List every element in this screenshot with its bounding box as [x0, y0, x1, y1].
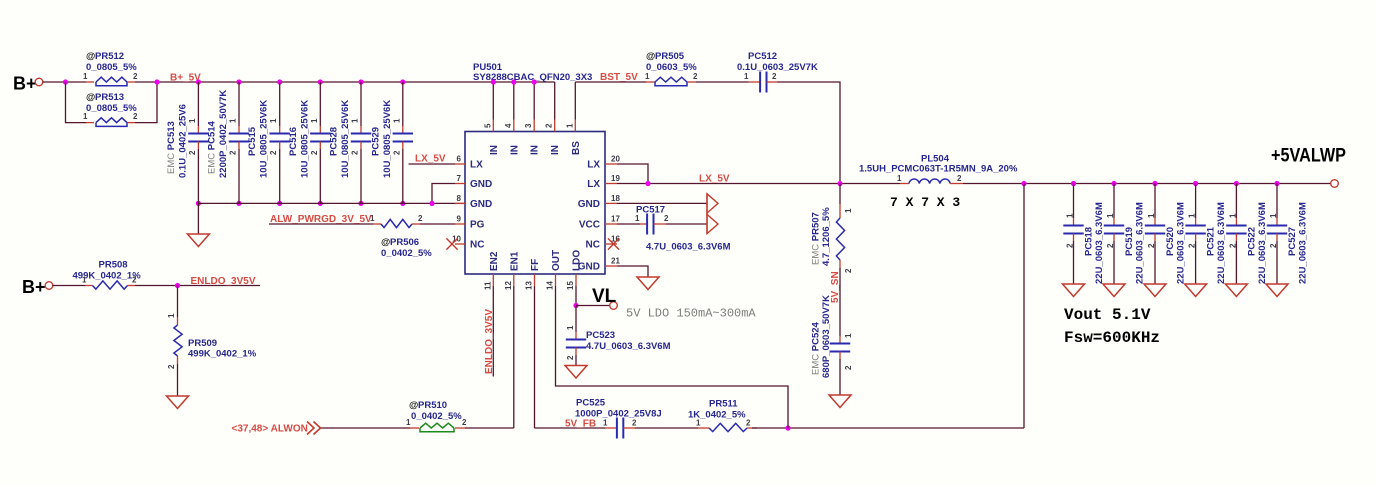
- svg-text:10U_0805_25V6K: 10U_0805_25V6K: [382, 100, 393, 178]
- off-page chevron ALWON: [307, 422, 321, 435]
- svg-text:IN: IN: [530, 145, 541, 155]
- svg-text:PR512: PR512: [95, 51, 124, 62]
- svg-text:PC527: PC527: [1287, 227, 1298, 256]
- svg-text:1: 1: [635, 214, 640, 223]
- svg-text:4.7U_0603_6.3V6M: 4.7U_0603_6.3V6M: [586, 341, 671, 352]
- svg-text:@: @: [646, 51, 655, 62]
- pin 18 GND right: [605, 202, 617, 204]
- svg-text:PC518: PC518: [1084, 227, 1095, 256]
- svg-text:PC519: PC519: [1124, 227, 1135, 256]
- svg-text:2: 2: [1188, 243, 1197, 248]
- capacitor PC527 22U_0603_6.3V6M: [1274, 181, 1279, 186]
- svg-text:B+: B+: [22, 277, 46, 297]
- svg-text:1: 1: [1269, 213, 1278, 218]
- svg-text:PR509: PR509: [188, 338, 217, 349]
- svg-text:@: @: [86, 51, 95, 62]
- node junction LX rail / PR507+PC512 branch: [837, 181, 842, 186]
- svg-text:EMC PC513: EMC PC513: [166, 121, 177, 174]
- svg-text:2: 2: [1147, 243, 1156, 248]
- wire pin 14 OUT to feedback junction: [556, 286, 789, 428]
- svg-text:2: 2: [664, 214, 669, 223]
- wire GND bottom rail of input cap bank: [198, 202, 455, 204]
- svg-text:EN1: EN1: [509, 251, 520, 271]
- pin 11 EN2 bottom stub: [492, 274, 494, 286]
- wire B+ terminal to PR512: [43, 81, 87, 83]
- wire 5V_SN net: [839, 268, 841, 336]
- svg-text:1: 1: [1188, 213, 1197, 218]
- svg-text:GND: GND: [470, 199, 492, 210]
- svg-text:@: @: [86, 92, 95, 103]
- svg-text:PC516: PC516: [288, 127, 299, 156]
- svg-text:1000P_0402_25V8J: 1000P_0402_25V8J: [575, 409, 662, 420]
- capacitor PC520 22U_0603_6.3V6M: [1152, 181, 1157, 186]
- wire PR511 to feedback junction: [752, 427, 1024, 429]
- wire VL to terminal: [576, 305, 610, 307]
- pin 6 LX left: [455, 163, 465, 165]
- svg-text:PC521: PC521: [1206, 226, 1217, 256]
- wire ALWON to PR510: [321, 427, 410, 429]
- svg-text:7: 7: [457, 174, 462, 183]
- capacitor PC516 10U_0805_25V6K: [318, 79, 323, 84]
- off-page arrow PC517 GND: [707, 214, 718, 233]
- ground under PC519: [1103, 284, 1125, 297]
- svg-text:PC522: PC522: [1246, 227, 1257, 256]
- op-amp U-PU501 SY8288CBAC QFN20_3X3 body: [465, 132, 605, 275]
- svg-text:1: 1: [83, 72, 88, 81]
- svg-text:19: 19: [611, 174, 620, 183]
- svg-text:IN: IN: [550, 145, 561, 155]
- svg-text:680P_0603_50V7K: 680P_0603_50V7K: [821, 295, 832, 378]
- svg-text:13: 13: [525, 281, 534, 290]
- pin 7 GND left: [455, 183, 465, 185]
- capacitor PC524 680P_0603_50V7K: [839, 336, 841, 344]
- svg-text:22U_0603_6.3V6M: 22U_0603_6.3V6M: [1094, 202, 1105, 284]
- capacitor PC513 0.1U_0402_25V6: [196, 79, 201, 84]
- svg-text:2: 2: [1106, 243, 1115, 248]
- ground pin 21: [637, 277, 659, 290]
- svg-text:@: @: [409, 400, 418, 411]
- svg-text:7 X 7 X 3: 7 X 7 X 3: [890, 195, 960, 210]
- svg-text:NC: NC: [586, 240, 600, 251]
- svg-text:2: 2: [632, 419, 637, 428]
- svg-text:2: 2: [844, 268, 853, 273]
- svg-text:PR506: PR506: [390, 237, 419, 248]
- capacitor PC529 10U_0805_25V6K: [400, 79, 405, 84]
- wire pin 4 IN top stub: [513, 82, 515, 120]
- ground GND symbol under PC513: [197, 203, 199, 234]
- pin 19 LX right: [605, 183, 617, 185]
- resistor R-PR507 4.7_1206_5%: [836, 218, 844, 260]
- wire LX_5V rail pin19 to inductor: [617, 183, 900, 185]
- svg-text:2: 2: [957, 174, 962, 183]
- pin 15 LDO bottom stub: [575, 274, 577, 286]
- pin 16 NC right: [605, 243, 617, 245]
- wire PC525 to PR511: [635, 427, 698, 429]
- svg-text:2: 2: [392, 150, 401, 155]
- wire PR513 parallel branch: [66, 82, 87, 123]
- node VL terminal: [610, 302, 618, 310]
- svg-text:0_0805_5%: 0_0805_5%: [86, 62, 137, 73]
- svg-text:1: 1: [370, 214, 375, 223]
- capacitor PC521 22U_0603_6.3V6M: [1193, 181, 1198, 186]
- svg-text:4.7_1206_5%: 4.7_1206_5%: [821, 207, 832, 266]
- wire 5V_FB to PC525: [535, 427, 606, 429]
- svg-text:14: 14: [546, 281, 555, 290]
- svg-text:PC520: PC520: [1165, 227, 1176, 256]
- wire pin 13 FF down: [534, 286, 536, 428]
- svg-text:PC528: PC528: [329, 127, 340, 156]
- resistor R-PR508 499K_0402_1%: [93, 281, 128, 289]
- svg-text:22U_0603_6.3V6M: 22U_0603_6.3V6M: [1216, 202, 1227, 284]
- svg-text:1: 1: [565, 123, 574, 128]
- svg-text:PC512: PC512: [748, 51, 777, 62]
- svg-text:10U_0805_25V6K: 10U_0805_25V6K: [259, 100, 270, 178]
- resistor R-PR511 1K_0402_5%: [709, 423, 747, 431]
- svg-text:NC: NC: [470, 240, 484, 251]
- wire ALW_PWRGD_3V_5V to PR506: [269, 223, 373, 225]
- svg-text:ENLDO_3V5V: ENLDO_3V5V: [191, 276, 256, 287]
- svg-text:2: 2: [545, 123, 554, 128]
- svg-text:+5VALWP: +5VALWP: [1271, 145, 1346, 167]
- node junction B+ branch: [63, 79, 68, 84]
- capacitor PC514 2200P_0402_50V7K: [236, 79, 241, 84]
- svg-text:22U_0603_6.3V6M: 22U_0603_6.3V6M: [1176, 202, 1187, 284]
- svg-text:PR508: PR508: [99, 260, 128, 271]
- svg-text:18: 18: [611, 194, 620, 203]
- svg-text:LX: LX: [587, 160, 600, 171]
- ground under PC523: [565, 366, 587, 379]
- svg-text:1: 1: [1106, 213, 1115, 218]
- svg-text:1: 1: [844, 208, 853, 213]
- svg-text:1: 1: [696, 419, 701, 428]
- svg-text:10U_0805_25V6K: 10U_0805_25V6K: [299, 100, 310, 178]
- off-page arrow pin18 GND: [707, 194, 718, 213]
- svg-text:22U_0603_6.3V6M: 22U_0603_6.3V6M: [1298, 202, 1309, 284]
- wire inductor to +5VALWP output rail: [963, 183, 1331, 185]
- svg-text:1: 1: [188, 118, 197, 123]
- svg-text:5V_FB: 5V_FB: [565, 419, 596, 430]
- svg-text:1: 1: [1228, 213, 1237, 218]
- svg-text:BST_5V: BST_5V: [600, 72, 638, 83]
- wire pin 7 GND down to rail: [432, 184, 455, 204]
- svg-text:3: 3: [524, 123, 533, 128]
- svg-text:EMC PC514: EMC PC514: [207, 120, 218, 174]
- svg-text:<37,48> ALWON: <37,48> ALWON: [232, 424, 308, 435]
- capacitor PC517 4.7U_0603_6.3V6M: [646, 214, 648, 235]
- node junction pins 19/20: [645, 181, 650, 186]
- svg-text:1: 1: [269, 118, 278, 123]
- svg-text:2: 2: [844, 365, 853, 370]
- capacitor PC518 22U_0603_6.3V6M: [1071, 181, 1076, 186]
- ground under PC521: [1185, 284, 1207, 297]
- svg-text:1: 1: [744, 72, 749, 81]
- resistor R-PR505 0_0603_5%: [655, 77, 687, 82]
- svg-text:2: 2: [167, 364, 176, 369]
- svg-text:2: 2: [269, 150, 278, 155]
- svg-text:4: 4: [504, 123, 513, 128]
- wire pin 17 VCC to PC517: [617, 223, 640, 225]
- svg-text:11: 11: [483, 281, 492, 290]
- svg-text:0_0603_5%: 0_0603_5%: [646, 62, 697, 73]
- svg-text:2: 2: [418, 214, 423, 223]
- node B+_5V net label: [154, 79, 159, 84]
- svg-text:PC529: PC529: [370, 127, 381, 156]
- svg-text:EN2: EN2: [489, 251, 500, 271]
- pin 10 NC left: [455, 243, 465, 245]
- node junction pin7/rail: [429, 201, 434, 206]
- svg-text:2: 2: [132, 276, 137, 285]
- svg-text:1: 1: [82, 276, 87, 285]
- svg-text:5V LDO 150mA~300mA: 5V LDO 150mA~300mA: [626, 307, 756, 321]
- wire B+ to PR508: [53, 285, 86, 287]
- svg-text:IN: IN: [509, 145, 520, 155]
- capacitor PC515 10U_0805_25V6K: [277, 79, 282, 84]
- svg-text:2: 2: [1066, 243, 1075, 248]
- svg-text:22U_0603_6.3V6M: 22U_0603_6.3V6M: [1257, 202, 1268, 284]
- svg-text:PC517: PC517: [636, 205, 665, 216]
- capacitor PC522 22U_0603_6.3V6M: [1234, 181, 1239, 186]
- svg-text:12: 12: [504, 281, 513, 290]
- pin 20 LX right: [605, 163, 617, 165]
- svg-text:PC523: PC523: [586, 330, 615, 341]
- wire feedback up to output rail: [1023, 184, 1025, 429]
- svg-text:2: 2: [310, 150, 319, 155]
- wire pin 5 IN top stub: [492, 82, 494, 120]
- wire pin 1 BS top stub: [574, 82, 576, 120]
- svg-text:5: 5: [483, 123, 492, 128]
- svg-text:2: 2: [693, 72, 698, 81]
- pin 14 OUT bottom stub: [555, 274, 557, 286]
- pin 21 GND right: [605, 265, 617, 267]
- svg-text:LDO: LDO: [572, 250, 583, 271]
- svg-text:22U_0603_6.3V6M: 22U_0603_6.3V6M: [1135, 202, 1146, 284]
- svg-text:PR513: PR513: [95, 92, 124, 103]
- svg-text:EMC PR507: EMC PR507: [811, 212, 822, 265]
- svg-text:ENLDO_3V5V: ENLDO_3V5V: [484, 309, 495, 374]
- ground under PR509: [167, 396, 189, 409]
- svg-text:21: 21: [611, 257, 620, 266]
- svg-text:Vout 5.1V: Vout 5.1V: [1064, 306, 1151, 324]
- svg-text:PC515: PC515: [247, 126, 258, 156]
- wire LX junction down to PR507: [839, 184, 841, 205]
- svg-text:2: 2: [229, 150, 238, 155]
- svg-text:Fsw=600KHz: Fsw=600KHz: [1064, 329, 1160, 347]
- svg-text:20: 20: [611, 155, 620, 164]
- svg-text:@: @: [381, 237, 390, 248]
- capacitor PC519 22U_0603_6.3V6M: [1111, 181, 1116, 186]
- svg-text:1: 1: [844, 333, 853, 338]
- capacitor PC512 0.1U_0603_25V7K: [759, 72, 761, 93]
- svg-text:0.1U_0603_25V7K: 0.1U_0603_25V7K: [737, 62, 818, 73]
- svg-text:0.1U_0402_25V6: 0.1U_0402_25V6: [177, 104, 188, 178]
- svg-text:LX: LX: [470, 160, 483, 171]
- node junction feedback tap: [1021, 181, 1026, 186]
- svg-text:1: 1: [351, 118, 360, 123]
- svg-text:2: 2: [188, 150, 197, 155]
- svg-text:1: 1: [1066, 213, 1075, 218]
- resistor R-PR510 0_0402_5% (green): [420, 423, 454, 428]
- wire BS pin1 to BST_5V net: [575, 81, 646, 83]
- pin 9 PG left: [455, 223, 465, 225]
- svg-text:8: 8: [457, 194, 462, 203]
- node junctions on B+ rail at IN pins: [491, 79, 496, 84]
- svg-text:ALW_PWRGD_3V_5V: ALW_PWRGD_3V_5V: [270, 214, 372, 225]
- wire pin 18 GND to arrow: [617, 202, 707, 204]
- svg-text:4.7U_0603_6.3V6M: 4.7U_0603_6.3V6M: [646, 242, 731, 253]
- svg-text:1: 1: [310, 118, 319, 123]
- capacitor PC523 4.7U_0603_6.3V6M: [575, 306, 577, 333]
- svg-text:1: 1: [566, 325, 575, 330]
- svg-text:IN: IN: [489, 145, 500, 155]
- svg-text:2: 2: [566, 355, 575, 360]
- pin 17 VCC right: [605, 223, 617, 225]
- wire pin 2 IN top stub: [554, 82, 556, 120]
- wire pin 15 LDO down to VL node: [575, 286, 577, 306]
- svg-text:BS: BS: [571, 141, 582, 155]
- svg-text:B+: B+: [13, 74, 37, 94]
- svg-text:EMC PC524: EMC PC524: [811, 321, 822, 375]
- svg-text:VCC: VCC: [579, 220, 600, 231]
- ground under PC527: [1266, 284, 1288, 297]
- svg-text:2: 2: [746, 419, 751, 428]
- svg-text:10U_0805_25V6K: 10U_0805_25V6K: [340, 100, 351, 178]
- svg-text:0_0805_5%: 0_0805_5%: [86, 103, 137, 114]
- node +5VALWP output terminal: [1331, 180, 1339, 188]
- svg-text:GND: GND: [578, 199, 600, 210]
- wire pin 11 EN2 ENLDO_3V5V stub: [492, 286, 494, 377]
- svg-text:LX_5V: LX_5V: [699, 174, 730, 185]
- ground under PC524: [829, 395, 851, 408]
- svg-text:1.5UH_PCMC063T-1R5MN_9A_20%: 1.5UH_PCMC063T-1R5MN_9A_20%: [859, 164, 1018, 175]
- svg-text:GND: GND: [470, 179, 492, 190]
- wire pin 3 IN top stub: [533, 82, 535, 120]
- pin 8 GND left: [455, 202, 465, 204]
- inductor L-PL504 1.5UH: [900, 183, 909, 185]
- svg-text:2: 2: [133, 72, 138, 81]
- node VL junction: [573, 303, 578, 308]
- pin 12 EN1 bottom stub: [513, 274, 515, 286]
- capacitor PC525 1000P_0402_25V8J: [616, 418, 618, 439]
- svg-text:PC525: PC525: [576, 398, 606, 409]
- svg-text:2: 2: [462, 418, 467, 427]
- svg-text:1: 1: [229, 118, 238, 123]
- svg-text:2: 2: [351, 150, 360, 155]
- svg-text:1: 1: [167, 313, 176, 318]
- svg-text:VL: VL: [592, 286, 617, 307]
- node junction PR511/OUT/feedback: [785, 425, 790, 430]
- svg-text:PR511: PR511: [709, 399, 738, 410]
- wire PC512 down to LX rail: [777, 82, 840, 184]
- resistor R-PR506 0_0402_5%: [381, 219, 412, 227]
- svg-text:LX_5V: LX_5V: [415, 154, 446, 165]
- wire PR505 to PC512: [696, 81, 749, 83]
- node junction ENLDO/PR509: [175, 283, 180, 288]
- svg-text:FF: FF: [530, 259, 541, 271]
- capacitor PC528 10U_0805_25V6K: [358, 79, 363, 84]
- wire PR508 to ENLDO stub: [135, 285, 260, 287]
- svg-text:PG: PG: [470, 220, 485, 231]
- svg-text:1: 1: [645, 72, 650, 81]
- svg-text:PR505: PR505: [655, 51, 685, 62]
- pin 10 NC no-connect X: [446, 238, 457, 249]
- ground under PC520: [1144, 284, 1166, 297]
- svg-text:1: 1: [603, 419, 608, 428]
- svg-text:2: 2: [1269, 243, 1278, 248]
- svg-text:OUT: OUT: [551, 250, 562, 271]
- wire pin 21 GND: [617, 266, 648, 277]
- svg-text:2200P_0402_50V7K: 2200P_0402_50V7K: [218, 90, 229, 178]
- svg-text:499K_0402_1%: 499K_0402_1%: [188, 349, 257, 360]
- svg-text:9: 9: [457, 215, 462, 224]
- svg-text:2: 2: [1228, 243, 1237, 248]
- svg-text:15: 15: [566, 281, 575, 290]
- pin 13 FF bottom stub: [534, 274, 536, 286]
- resistor R-PR512 0 ohm: [96, 77, 127, 82]
- svg-text:PR510: PR510: [418, 400, 447, 411]
- svg-text:0_0402_5%: 0_0402_5%: [381, 248, 432, 259]
- ground under PC522: [1225, 284, 1247, 297]
- resistor R-PR513 0 ohm: [96, 118, 127, 123]
- svg-text:LX: LX: [587, 179, 600, 190]
- wire LX_5V stub at pin 6: [409, 163, 456, 165]
- svg-text:1: 1: [392, 118, 401, 123]
- wire PR510 to pin 12 EN1: [465, 427, 514, 429]
- pin 16 NC no-connect X: [608, 238, 619, 249]
- svg-text:1: 1: [1147, 213, 1156, 218]
- ground under PC518: [1063, 284, 1085, 297]
- svg-text:0_0402_5%: 0_0402_5%: [411, 411, 462, 422]
- wire pin 20 LX jog to pin 19: [617, 164, 648, 184]
- svg-text:6: 6: [457, 155, 462, 164]
- svg-text:17: 17: [611, 215, 620, 224]
- svg-text:2: 2: [772, 72, 777, 81]
- wire B+ rail to IC top pins: [135, 81, 555, 83]
- resistor R-PR509 499K_0402_1%: [177, 286, 179, 318]
- svg-text:1: 1: [897, 174, 902, 183]
